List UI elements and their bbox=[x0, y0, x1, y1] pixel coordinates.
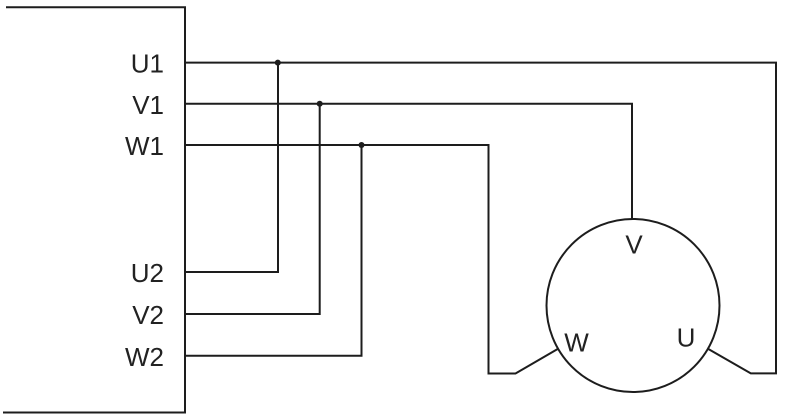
svg-text:V: V bbox=[625, 230, 643, 260]
svg-text:U1: U1 bbox=[131, 49, 164, 79]
svg-text:W2: W2 bbox=[125, 342, 164, 372]
svg-text:W1: W1 bbox=[125, 131, 164, 161]
svg-text:V2: V2 bbox=[132, 300, 164, 330]
svg-text:U: U bbox=[677, 323, 696, 353]
svg-text:W: W bbox=[564, 328, 589, 358]
svg-text:V1: V1 bbox=[132, 90, 164, 120]
svg-text:U2: U2 bbox=[131, 258, 164, 288]
